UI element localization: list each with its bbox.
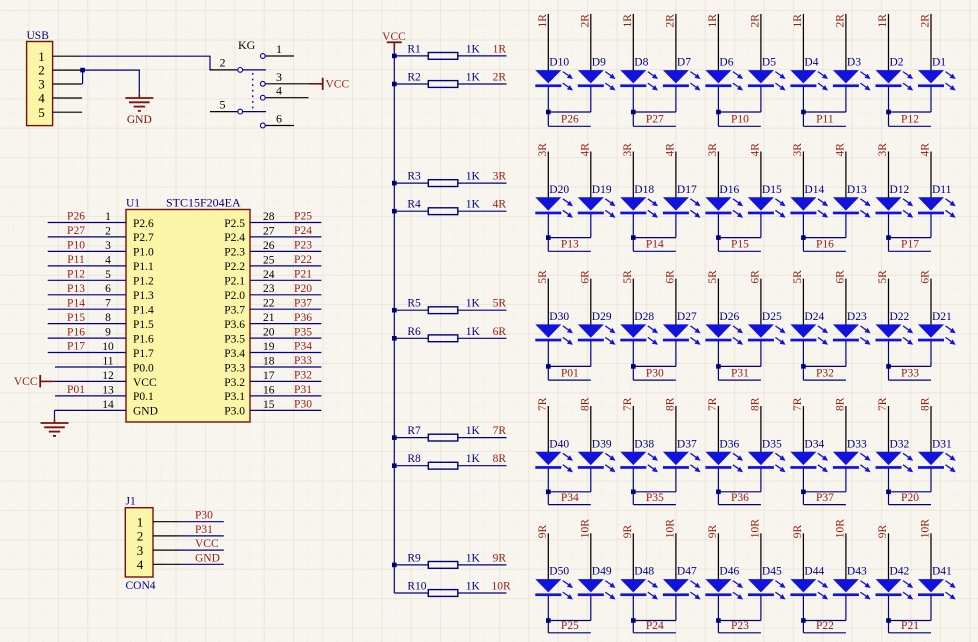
svg-text:STC15F204EA: STC15F204EA: [166, 196, 241, 210]
junction bus R8: [392, 463, 397, 468]
LED D29 net 6R: [578, 311, 616, 345]
LED D8 net 1R: [620, 57, 658, 91]
svg-text:CON4: CON4: [126, 580, 156, 592]
wire net 1R column (D2 anode): [888, 14, 890, 71]
KG pin 1: [260, 54, 265, 59]
wire net P15: [718, 250, 761, 252]
svg-text:8R: 8R: [834, 397, 846, 411]
svg-text:P26: P26: [67, 211, 85, 223]
svg-text:8R: 8R: [749, 397, 761, 411]
svg-text:D21: D21: [932, 311, 952, 323]
svg-text:4R: 4R: [493, 199, 507, 211]
svg-text:D18: D18: [634, 184, 654, 196]
U1 pin 22 (P3.7) wire: [250, 308, 321, 310]
svg-text:26: 26: [263, 240, 275, 252]
wire pair join D42/D41: [889, 620, 932, 622]
svg-text:P17: P17: [901, 239, 919, 251]
ground GND (U1) stub: [54, 419, 56, 423]
USB pin 1: [53, 55, 83, 57]
svg-text:6: 6: [105, 283, 111, 295]
svg-text:2R: 2R: [920, 14, 932, 28]
wire J1 pin 3: [181, 549, 224, 551]
wire D31 cathode down: [930, 468, 932, 492]
resistor R1 body: [428, 53, 458, 60]
wire net 9R column (D42 anode): [888, 533, 890, 580]
LED D3 net 2R: [833, 57, 871, 91]
LED D26 net 5R: [705, 311, 743, 345]
svg-text:3: 3: [105, 240, 111, 252]
wire pair join D18/D17: [633, 237, 676, 239]
U1 pin 7 (P1.4) wire: [48, 308, 126, 310]
svg-text:P34: P34: [294, 341, 312, 353]
svg-text:P27: P27: [646, 114, 664, 126]
wire net 6R column (D29 anode): [590, 279, 592, 326]
junction pair D34: [801, 490, 806, 495]
svg-text:27: 27: [263, 225, 275, 237]
resistor R1 wire left: [394, 55, 428, 57]
wire net P01: [548, 379, 591, 381]
svg-text:22: 22: [263, 298, 275, 310]
LED D49 net 10R: [578, 566, 616, 600]
svg-text:4: 4: [137, 557, 144, 572]
wire net 2R column (D3 anode): [845, 14, 847, 71]
wire D37 cathode down: [675, 468, 677, 492]
power VCC (KG pin3) bar: [322, 78, 324, 90]
U1 pin 2 (P2.7) wire: [48, 236, 126, 238]
wire net P33: [889, 379, 932, 381]
wire pair join D14/D13: [803, 237, 846, 239]
wire pair join D4/D3: [803, 111, 846, 113]
wire D41 cathode down: [930, 596, 932, 621]
wire D16 cathode down: [717, 214, 719, 252]
resistor R4 wire right: [458, 210, 507, 212]
svg-text:R2: R2: [407, 72, 421, 84]
junction pair D40: [546, 490, 551, 495]
svg-text:3R: 3R: [493, 171, 507, 183]
svg-text:P2.3: P2.3: [224, 247, 245, 259]
wire net 5R column (D26 anode): [717, 279, 719, 326]
wire net P14: [633, 250, 676, 252]
resistor R8 wire right: [458, 465, 507, 467]
svg-text:3R: 3R: [622, 143, 634, 157]
wire D40 cathode down: [547, 468, 549, 504]
svg-text:R1: R1: [407, 43, 421, 55]
svg-text:D14: D14: [804, 184, 824, 196]
svg-text:1K: 1K: [466, 425, 481, 437]
wire net 1R column (D6 anode): [717, 14, 719, 71]
junction bus R1: [392, 54, 397, 59]
svg-text:2R: 2R: [579, 14, 591, 28]
wire net 2R column (D7 anode): [675, 14, 677, 71]
wire net 1R column (D4 anode): [802, 14, 804, 71]
svg-text:P3.1: P3.1: [224, 391, 245, 403]
junction USB pin2 node: [80, 68, 85, 73]
svg-text:GND: GND: [127, 114, 152, 126]
svg-text:D37: D37: [677, 438, 697, 450]
resistor R7 wire left: [394, 437, 428, 439]
power VCC (bus) stub: [393, 42, 395, 50]
wire net 10R column (D49 anode): [590, 533, 592, 580]
svg-text:16: 16: [263, 384, 275, 396]
wire D49 cathode down: [590, 596, 592, 621]
wire D38 cathode down: [632, 468, 634, 504]
U1 pin 26 (P2.3) wire: [250, 250, 321, 252]
wire net 4R column (D17 anode): [675, 152, 677, 199]
resistor R2 wire left: [394, 83, 428, 85]
power VCC (KG pin3) wire: [309, 83, 323, 85]
junction bus R9: [392, 563, 397, 568]
svg-text:D38: D38: [634, 438, 654, 450]
svg-text:5R: 5R: [877, 270, 889, 284]
wire net 4R column (D11 anode): [930, 152, 932, 199]
svg-text:24: 24: [263, 269, 275, 281]
svg-text:D33: D33: [847, 438, 867, 450]
svg-text:P1.4: P1.4: [133, 305, 154, 317]
svg-text:R4: R4: [407, 199, 421, 211]
LED D27 net 6R: [663, 311, 701, 345]
svg-text:P23: P23: [731, 620, 749, 632]
wire D5 cathode down: [760, 87, 762, 112]
resistor R7 body: [428, 434, 458, 441]
KG pin 2: [210, 69, 237, 71]
U1 pin 14 (GND) wire: [55, 409, 127, 411]
svg-text:D48: D48: [634, 566, 654, 578]
svg-text:P37: P37: [816, 492, 834, 504]
junction pair D24: [801, 364, 806, 369]
wire net 8R column (D33 anode): [845, 406, 847, 453]
connector J1 body: [125, 508, 153, 577]
junction pair D32: [886, 490, 891, 495]
svg-text:D34: D34: [804, 438, 824, 450]
wire pair join D50/D49: [548, 620, 591, 622]
wire net P13: [548, 250, 591, 252]
wire D29 cathode down: [590, 341, 592, 367]
svg-text:R3: R3: [407, 171, 421, 183]
wire net 2R column (D1 anode): [930, 14, 932, 71]
wire D50 cathode down: [547, 596, 549, 633]
wire net P12: [889, 125, 932, 127]
svg-text:D12: D12: [890, 184, 910, 196]
LED D11 net 4R: [918, 184, 956, 218]
LED D37 net 8R: [663, 438, 701, 472]
resistor R3 wire left: [394, 182, 428, 184]
U1 pin 8 (P1.5) wire: [48, 323, 126, 325]
wire net 8R column (D35 anode): [760, 406, 762, 453]
svg-text:P15: P15: [731, 239, 749, 251]
svg-text:D19: D19: [592, 184, 612, 196]
svg-text:1R: 1R: [877, 14, 889, 28]
svg-text:P24: P24: [646, 620, 664, 632]
LED D36 net 7R: [705, 438, 743, 472]
svg-text:P2.4: P2.4: [224, 232, 245, 244]
LED D18 net 3R: [620, 184, 658, 218]
svg-text:5R: 5R: [537, 270, 549, 284]
wire net 10R column (D47 anode): [675, 533, 677, 580]
wire net 7R column (D34 anode): [802, 406, 804, 453]
U1 pin 12 (VCC) wire: [54, 380, 126, 382]
wire net 1R column (D10 anode): [547, 14, 549, 71]
wire net P11: [803, 125, 846, 127]
wire net 9R column (D48 anode): [632, 533, 634, 580]
svg-text:P1.0: P1.0: [133, 247, 154, 259]
svg-text:9R: 9R: [792, 525, 804, 539]
wire D42 cathode down: [888, 596, 890, 633]
LED D24 net 5R: [790, 311, 828, 345]
svg-text:4R: 4R: [664, 143, 676, 157]
resistor R9 body: [428, 562, 458, 569]
LED D17 net 4R: [663, 184, 701, 218]
wire D43 cathode down: [845, 596, 847, 621]
svg-text:D24: D24: [804, 311, 824, 323]
svg-text:7R: 7R: [877, 397, 889, 411]
svg-text:P22: P22: [294, 254, 312, 266]
wire D19 cathode down: [590, 214, 592, 238]
svg-text:P22: P22: [816, 620, 834, 632]
J1 pin 1: [153, 521, 181, 523]
wire net 7R column (D36 anode): [717, 406, 719, 453]
svg-text:P30: P30: [294, 399, 312, 411]
wire pair join D26/D25: [718, 365, 761, 367]
LED D13 net 4R: [833, 184, 871, 218]
svg-text:D43: D43: [847, 566, 867, 578]
svg-text:P35: P35: [294, 326, 312, 338]
LED D43 net 10R: [833, 566, 871, 600]
wire net 8R column (D31 anode): [930, 406, 932, 453]
LED D35 net 8R: [748, 438, 786, 472]
wire pair join D12/D11: [889, 237, 932, 239]
wire D3 cathode down: [845, 87, 847, 112]
resistor R3 body: [428, 180, 458, 187]
svg-text:5R: 5R: [792, 270, 804, 284]
svg-text:D5: D5: [762, 57, 776, 69]
svg-text:P25: P25: [561, 620, 579, 632]
wire net P32: [803, 379, 846, 381]
USB pin 3: [53, 83, 83, 85]
svg-text:4R: 4R: [579, 143, 591, 157]
LED D25 net 6R: [748, 311, 786, 345]
wire net 6R column (D21 anode): [930, 279, 932, 326]
wire net 3R column (D14 anode): [802, 152, 804, 199]
svg-text:P3.3: P3.3: [224, 362, 245, 374]
svg-text:4: 4: [38, 91, 45, 106]
wire D27 cathode down: [675, 341, 677, 367]
svg-text:R5: R5: [407, 298, 421, 310]
junction pair D44: [801, 618, 806, 623]
svg-text:P2.0: P2.0: [224, 290, 245, 302]
resistor R10 body: [428, 590, 458, 597]
resistor R10 wire left: [394, 592, 428, 594]
junction pair D30: [546, 364, 551, 369]
resistor R7 wire right: [458, 437, 507, 439]
svg-text:P37: P37: [294, 297, 312, 309]
USB pin 5: [53, 111, 83, 113]
junction pair D48: [631, 618, 636, 623]
svg-text:1R: 1R: [622, 14, 634, 28]
svg-text:5: 5: [105, 269, 111, 281]
svg-text:D28: D28: [634, 311, 654, 323]
svg-text:J1: J1: [126, 496, 136, 508]
svg-text:1K: 1K: [466, 298, 481, 310]
svg-text:D13: D13: [847, 184, 867, 196]
wire net 4R column (D15 anode): [760, 152, 762, 199]
LED D5 net 2R: [748, 57, 786, 91]
svg-text:8: 8: [105, 312, 111, 324]
svg-text:1K: 1K: [466, 326, 481, 338]
connector USB body: [27, 42, 53, 126]
wire net P24: [633, 632, 676, 634]
svg-text:2R: 2R: [749, 14, 761, 28]
svg-text:P2.2: P2.2: [224, 261, 245, 273]
svg-text:D27: D27: [677, 311, 697, 323]
wire D47 cathode down: [675, 596, 677, 621]
resistor R8 body: [428, 462, 458, 469]
wire D46 cathode down: [717, 596, 719, 633]
svg-text:9: 9: [105, 327, 111, 339]
wire pair join D10/D9: [548, 111, 591, 113]
LED D6 net 1R: [705, 57, 743, 91]
junction pair D10: [546, 110, 551, 115]
svg-text:P36: P36: [731, 492, 749, 504]
U1 pin 1 (P2.6) wire: [48, 222, 126, 224]
svg-text:P21: P21: [901, 620, 919, 632]
svg-text:1K: 1K: [466, 453, 481, 465]
wire D24 cathode down: [802, 341, 804, 380]
svg-text:D2: D2: [890, 57, 904, 69]
svg-text:6R: 6R: [749, 270, 761, 284]
svg-text:1: 1: [137, 515, 144, 530]
wire USB.1 to KG.2: [82, 56, 212, 70]
junction bus R3: [392, 181, 397, 186]
wire net P27: [633, 125, 676, 127]
svg-text:P01: P01: [561, 367, 579, 379]
U1 pin 21 (P3.6) wire: [250, 323, 321, 325]
wire net 5R column (D24 anode): [802, 279, 804, 326]
wire D20 cathode down: [547, 214, 549, 252]
svg-text:P2.6: P2.6: [133, 218, 154, 230]
svg-text:8R: 8R: [493, 453, 507, 465]
wire net P35: [633, 504, 676, 506]
wire net 3R column (D20 anode): [547, 152, 549, 199]
U1 pin 19 (P3.4) wire: [250, 352, 321, 354]
wire D23 cathode down: [845, 341, 847, 367]
svg-text:P3.5: P3.5: [224, 333, 245, 345]
svg-text:P12: P12: [901, 114, 919, 126]
svg-text:D46: D46: [719, 566, 739, 578]
KG pin 5 arm: [243, 111, 266, 113]
svg-text:D26: D26: [719, 311, 739, 323]
junction pair D20: [546, 235, 551, 240]
svg-text:P24: P24: [294, 225, 312, 237]
svg-text:D7: D7: [677, 57, 691, 69]
wire net 7R column (D38 anode): [632, 406, 634, 453]
wire pair join D40/D39: [548, 491, 591, 493]
svg-text:P3.7: P3.7: [224, 305, 245, 317]
svg-text:D32: D32: [890, 438, 910, 450]
junction pair D14: [801, 235, 806, 240]
wire D15 cathode down: [760, 214, 762, 238]
svg-text:P3.0: P3.0: [224, 406, 245, 418]
LED D16 net 3R: [705, 184, 743, 218]
wire net P26: [548, 125, 591, 127]
U1 pin 16 (P3.1) wire: [250, 395, 321, 397]
LED D10 net 1R: [535, 57, 573, 91]
svg-text:P20: P20: [901, 492, 919, 504]
svg-text:1: 1: [276, 42, 282, 56]
svg-text:D45: D45: [762, 566, 782, 578]
U1 pin 9 (P1.6) wire: [48, 337, 126, 339]
U1 pin 25 (P2.2) wire: [250, 265, 321, 267]
svg-text:D22: D22: [890, 311, 910, 323]
svg-text:P30: P30: [646, 367, 664, 379]
wire net 6R column (D27 anode): [675, 279, 677, 326]
svg-text:R9: R9: [407, 552, 421, 564]
LED D1 net 2R: [918, 57, 956, 91]
svg-text:17: 17: [263, 370, 275, 382]
junction pair D12: [886, 235, 891, 240]
svg-text:1K: 1K: [466, 72, 481, 84]
LED D47 net 10R: [663, 566, 701, 600]
wire J1 pin 4: [181, 563, 224, 565]
svg-text:P12: P12: [67, 269, 85, 281]
svg-text:25: 25: [263, 254, 275, 266]
svg-text:P14: P14: [67, 297, 85, 309]
resistor R9 wire right: [458, 564, 507, 566]
wire net 8R column (D37 anode): [675, 406, 677, 453]
junction pair D50: [546, 618, 551, 623]
wire D45 cathode down: [760, 596, 762, 621]
junction pair D6: [716, 110, 721, 115]
svg-text:P3.4: P3.4: [224, 348, 245, 360]
svg-text:5: 5: [38, 105, 45, 120]
svg-text:P32: P32: [816, 367, 834, 379]
svg-text:13: 13: [102, 384, 114, 396]
wire D11 cathode down: [930, 214, 932, 238]
svg-text:P30: P30: [195, 510, 213, 522]
wire net 10R column (D45 anode): [760, 533, 762, 580]
wire net 6R column (D23 anode): [845, 279, 847, 326]
wire USB.2 to GND: [84, 70, 139, 94]
junction pair D16: [716, 235, 721, 240]
wire D33 cathode down: [845, 468, 847, 492]
svg-text:D9: D9: [592, 57, 606, 69]
KG pin 3: [260, 81, 265, 86]
resistor R10 wire right: [458, 592, 507, 594]
svg-text:2: 2: [137, 529, 144, 544]
svg-text:D49: D49: [592, 566, 612, 578]
resistor R2 wire right: [458, 83, 507, 85]
wire net 5R column (D28 anode): [632, 279, 634, 326]
svg-text:P0.0: P0.0: [133, 362, 154, 374]
U1 pin 28 (P2.5) wire: [250, 222, 321, 224]
svg-text:4R: 4R: [834, 143, 846, 157]
svg-text:P23: P23: [294, 240, 312, 252]
wire net 5R column (D22 anode): [888, 279, 890, 326]
LED D34 net 7R: [790, 438, 828, 472]
svg-text:1K: 1K: [466, 552, 481, 564]
svg-text:3: 3: [38, 77, 45, 92]
wire net 7R column (D40 anode): [547, 406, 549, 453]
LED D40 net 7R: [535, 438, 573, 472]
svg-text:D25: D25: [762, 311, 782, 323]
LED D19 net 4R: [578, 184, 616, 218]
svg-text:1R: 1R: [707, 14, 719, 28]
svg-text:4R: 4R: [920, 143, 932, 157]
resistor R8 wire left: [394, 465, 428, 467]
wire pair join D44/D43: [803, 620, 846, 622]
svg-text:P31: P31: [731, 367, 749, 379]
wire net 10R column (D41 anode): [930, 533, 932, 580]
svg-text:R10: R10: [407, 581, 426, 593]
